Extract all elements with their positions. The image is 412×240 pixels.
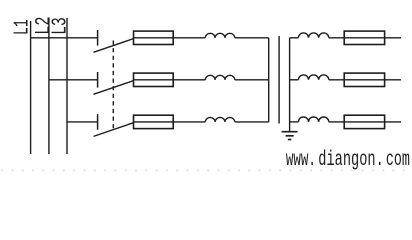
svg-text:com: com	[386, 149, 410, 172]
svg-text:www.: www.	[286, 149, 316, 172]
svg-text:diangon.: diangon.	[318, 149, 384, 172]
svg-text:L1: L1	[11, 19, 34, 35]
svg-text:L3: L3	[49, 17, 72, 35]
